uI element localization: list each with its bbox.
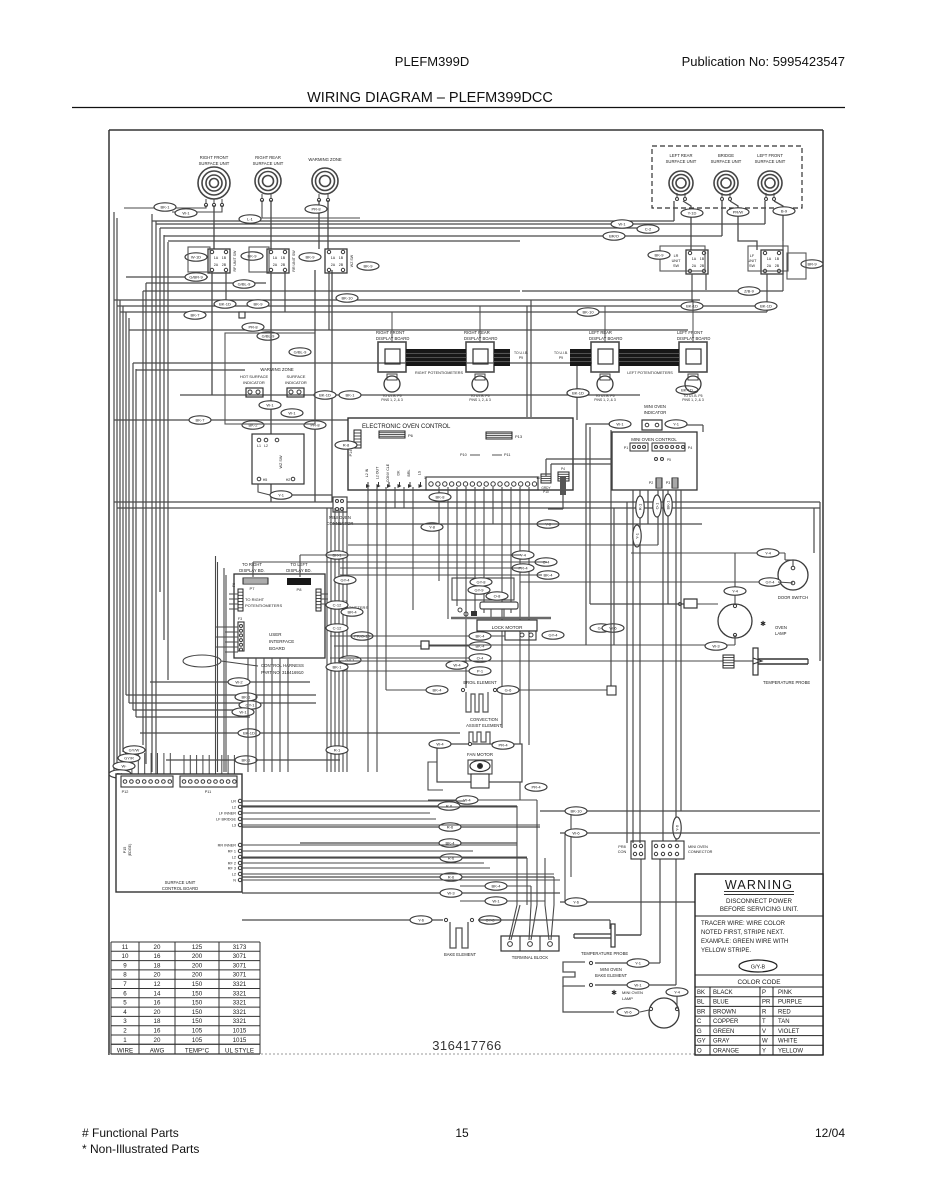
svg-text:2A: 2A	[331, 263, 336, 267]
svg-text:RIGHT FRONT: RIGHT FRONT	[200, 155, 229, 160]
svg-text:LEFT REAR: LEFT REAR	[670, 153, 693, 158]
svg-text:R-8: R-8	[343, 443, 350, 448]
svg-text:PURPLE: PURPLE	[778, 1000, 802, 1006]
svg-text:MINI OVEN CONTROL: MINI OVEN CONTROL	[631, 437, 677, 442]
svg-text:RIGHT POTENTIOMETERS: RIGHT POTENTIOMETERS	[415, 371, 463, 375]
svg-text:L3: L3	[232, 824, 236, 828]
svg-text:Y-4: Y-4	[520, 553, 527, 558]
svg-text:Y: Y	[762, 1048, 766, 1054]
svg-text:CONTROL HARNESS: CONTROL HARNESS	[261, 663, 304, 668]
svg-text:15: 15	[455, 1126, 469, 1140]
svg-text:1B: 1B	[222, 256, 227, 260]
svg-text:EXAMPLE: GREEN WIRE WITH: EXAMPLE: GREEN WIRE WITH	[701, 939, 788, 945]
svg-text:P: P	[762, 990, 766, 996]
svg-text:SW: SW	[749, 264, 756, 268]
svg-text:200: 200	[192, 972, 203, 979]
svg-text:BK-1D: BK-1D	[219, 302, 231, 307]
svg-text:RIGHT REAR: RIGHT REAR	[464, 330, 490, 335]
svg-text:PLEFM399D: PLEFM399D	[395, 54, 469, 69]
svg-text:150: 150	[192, 981, 203, 988]
svg-text:BK-7: BK-7	[196, 418, 206, 423]
svg-text:TO RIGHT: TO RIGHT	[242, 562, 262, 567]
svg-text:CONV CLE: CONV CLE	[386, 463, 390, 482]
svg-text:Y-8: Y-8	[429, 525, 436, 530]
svg-text:2B: 2B	[281, 263, 286, 267]
svg-text:✱: ✱	[611, 989, 617, 997]
svg-text:CONVECTION: CONVECTION	[470, 717, 498, 722]
svg-text:OVEN: OVEN	[775, 625, 787, 630]
svg-text:P8: P8	[297, 587, 303, 592]
svg-text:LF INNER: LF INNER	[219, 812, 237, 816]
svg-text:1A: 1A	[692, 257, 697, 261]
svg-text:O: O	[697, 1048, 702, 1054]
svg-text:1A: 1A	[214, 256, 219, 260]
svg-text:1015: 1015	[233, 1037, 247, 1044]
svg-text:COPPER: COPPER	[713, 1019, 739, 1025]
svg-text:COLOR CODE: COLOR CODE	[738, 979, 781, 986]
svg-text:W-1: W-1	[288, 411, 296, 416]
svg-text:C-2: C-2	[645, 227, 652, 232]
svg-text:P6: P6	[408, 433, 414, 438]
svg-text:150: 150	[192, 1009, 203, 1016]
svg-text:BK-7: BK-7	[191, 313, 201, 318]
svg-text:DISPLAY BD.: DISPLAY BD.	[239, 568, 264, 573]
svg-text:Y-6: Y-6	[418, 918, 425, 923]
svg-text:P-1: P-1	[477, 669, 484, 674]
svg-text:* Non-Illustrated Parts: * Non-Illustrated Parts	[82, 1142, 199, 1156]
svg-text:Y-1: Y-1	[635, 961, 642, 966]
svg-text:Y-4: Y-4	[674, 990, 681, 995]
svg-text:G/BL-9: G/BL-9	[294, 350, 307, 355]
svg-text:DISCONNECT POWER: DISCONNECT POWER	[726, 898, 792, 905]
svg-text:MINI OVEN: MINI OVEN	[329, 515, 351, 520]
svg-text:DISPLAY BOARD: DISPLAY BOARD	[376, 336, 409, 341]
svg-text:200: 200	[192, 953, 203, 960]
svg-text:3173: 3173	[233, 944, 247, 951]
svg-text:8: 8	[123, 972, 127, 979]
svg-text:P12: P12	[122, 790, 129, 794]
svg-text:14: 14	[154, 990, 161, 997]
svg-text:3321: 3321	[233, 1000, 247, 1007]
svg-text:LF: LF	[750, 254, 755, 258]
svg-text:PINS 1, 2, & 3: PINS 1, 2, & 3	[594, 398, 616, 402]
svg-text:W: W	[762, 1039, 768, 1045]
svg-text:USER: USER	[269, 632, 282, 637]
svg-text:R-1: R-1	[638, 503, 643, 510]
svg-text:BK-4: BK-4	[476, 634, 486, 639]
svg-text:GY/W: GY/W	[129, 748, 140, 753]
svg-text:125: 125	[192, 944, 203, 951]
svg-text:4: 4	[123, 1009, 127, 1016]
svg-text:TO U.I.B.: TO U.I.B.	[514, 351, 528, 355]
svg-text:RR INNER: RR INNER	[218, 844, 237, 848]
svg-text:TO LEFT: TO LEFT	[290, 562, 308, 567]
svg-text:18: 18	[154, 1018, 161, 1025]
svg-text:W-1: W-1	[634, 983, 642, 988]
svg-text:C: C	[697, 1019, 702, 1025]
svg-text:WARMING ZONE: WARMING ZONE	[308, 157, 342, 162]
svg-text:PR-8: PR-8	[248, 325, 258, 330]
svg-text:PINK: PINK	[778, 990, 792, 996]
svg-text:2A: 2A	[214, 263, 219, 267]
svg-text:P11: P11	[504, 453, 510, 457]
svg-text:LAMP: LAMP	[622, 996, 633, 1001]
svg-text:3321: 3321	[233, 990, 247, 997]
svg-text:BK-1D: BK-1D	[243, 731, 255, 736]
svg-text:2A: 2A	[692, 264, 697, 268]
svg-text:BK-4: BK-4	[492, 884, 502, 889]
svg-text:LEFT FRONT: LEFT FRONT	[677, 330, 703, 335]
svg-text:ORANGE: ORANGE	[713, 1048, 739, 1054]
svg-text:INDICATOR: INDICATOR	[285, 380, 307, 385]
svg-text:INDICATOR: INDICATOR	[644, 410, 667, 415]
svg-text:5: 5	[123, 1000, 127, 1007]
svg-text:BK-8: BK-8	[436, 495, 446, 500]
svg-text:POTENTIOMETERS: POTENTIOMETERS	[245, 603, 282, 608]
svg-text:SURFACE UNIT: SURFACE UNIT	[755, 159, 786, 164]
svg-text:GY-4: GY-4	[549, 633, 559, 638]
svg-text:RR UNIT SW: RR UNIT SW	[292, 250, 296, 272]
svg-text:L1: L1	[257, 444, 261, 448]
svg-text:16: 16	[154, 1028, 161, 1035]
svg-text:BLUE: BLUE	[713, 1000, 729, 1006]
svg-text:TERMINAL BLOCK: TERMINAL BLOCK	[512, 955, 549, 960]
svg-text:1B: 1B	[339, 256, 344, 260]
svg-text:Publication No: 5995423547: Publication No: 5995423547	[682, 54, 845, 69]
svg-text:1A: 1A	[767, 257, 772, 261]
svg-text:BK-1: BK-1	[666, 500, 671, 510]
svg-text:WHITE: WHITE	[778, 1039, 797, 1045]
svg-text:BK: BK	[697, 990, 705, 996]
svg-text:2B: 2B	[222, 263, 227, 267]
svg-text:BK-2: BK-2	[249, 423, 259, 428]
svg-text:150: 150	[192, 1018, 203, 1025]
svg-text:GY/R: GY/R	[124, 756, 134, 761]
svg-text:G-6: G-6	[505, 688, 512, 693]
svg-text:LAMP: LAMP	[775, 631, 787, 636]
svg-text:BRIDGE: BRIDGE	[718, 153, 734, 158]
svg-text:O-8: O-8	[494, 594, 501, 599]
svg-text:GY-1: GY-1	[246, 703, 256, 708]
svg-text:B-9: B-9	[781, 209, 788, 214]
svg-text:BROWN: BROWN	[713, 1009, 736, 1015]
svg-text:FAN MOTOR: FAN MOTOR	[467, 752, 493, 757]
svg-text:GY-4: GY-4	[766, 580, 776, 585]
svg-text:P5: P5	[667, 458, 671, 462]
svg-text:BK-9: BK-9	[364, 264, 374, 269]
svg-text:G/BR-9: G/BR-9	[189, 275, 203, 280]
svg-text:MINI OVEN: MINI OVEN	[688, 845, 708, 849]
svg-text:BK-4: BK-4	[544, 573, 554, 578]
svg-text:GY-8: GY-8	[477, 580, 487, 585]
svg-text:PR: PR	[762, 1000, 771, 1006]
svg-text:LEFT FRONT: LEFT FRONT	[757, 153, 783, 158]
svg-text:12: 12	[154, 981, 161, 988]
svg-text:BOARD: BOARD	[269, 646, 286, 651]
svg-text:P13: P13	[515, 434, 523, 439]
svg-text:1015: 1015	[233, 1028, 247, 1035]
svg-text:YELLOW: YELLOW	[778, 1048, 803, 1054]
svg-text:P15: P15	[123, 847, 127, 853]
svg-text:Y-6: Y-6	[675, 824, 680, 831]
svg-text:UNIT: UNIT	[748, 259, 758, 263]
svg-text:V: V	[762, 1029, 766, 1035]
svg-text:105: 105	[192, 1028, 203, 1035]
svg-text:W-6: W-6	[572, 831, 580, 836]
svg-text:20: 20	[154, 972, 161, 979]
svg-text:20: 20	[154, 944, 161, 951]
svg-text:LEFT POTENTIOMETERS: LEFT POTENTIOMETERS	[627, 371, 673, 375]
svg-text:# Functional Parts: # Functional Parts	[82, 1126, 179, 1140]
svg-text:UL STYLE: UL STYLE	[225, 1047, 254, 1054]
svg-text:BAKE ELEMENT: BAKE ELEMENT	[444, 952, 477, 957]
svg-text:Y-4: Y-4	[732, 589, 739, 594]
svg-text:BR/O: BR/O	[609, 234, 619, 239]
svg-text:TO RIGHT: TO RIGHT	[245, 597, 265, 602]
svg-text:200: 200	[192, 962, 203, 969]
svg-text:MINI OVEN: MINI OVEN	[600, 967, 622, 972]
svg-text:TEMP°C: TEMP°C	[185, 1047, 210, 1054]
svg-text:DISPLAY BOARD: DISPLAY BOARD	[589, 336, 622, 341]
svg-text:SURFACE UNIT: SURFACE UNIT	[666, 159, 697, 164]
svg-text:GY-4: GY-4	[341, 578, 351, 583]
svg-text:PR8: PR8	[618, 845, 625, 849]
svg-text:LOCK MOTOR: LOCK MOTOR	[492, 625, 523, 630]
svg-text:SW: SW	[673, 264, 680, 268]
svg-text:11: 11	[122, 944, 129, 951]
svg-text:P10: P10	[460, 453, 467, 457]
svg-text:PR-8: PR-8	[311, 207, 321, 212]
svg-text:Y-1: Y-1	[278, 493, 285, 498]
svg-text:DISPLAY BOARD: DISPLAY BOARD	[464, 336, 497, 341]
svg-text:C-12: C-12	[333, 626, 342, 631]
svg-text:BR-9: BR-9	[807, 262, 817, 267]
svg-text:ELECTRONIC OVEN CONTROL: ELECTRONIC OVEN CONTROL	[362, 424, 451, 430]
svg-text:RED: RED	[778, 1009, 791, 1015]
svg-text:7: 7	[123, 981, 127, 988]
svg-text:PR/W: PR/W	[733, 210, 744, 215]
svg-text:WZ SW: WZ SW	[279, 455, 283, 468]
svg-text:W-1: W-1	[266, 403, 274, 408]
svg-text:PART NO. 318416910: PART NO. 318416910	[261, 670, 304, 675]
svg-text:BK-4: BK-4	[476, 644, 486, 649]
svg-text:P4: P4	[561, 467, 565, 471]
svg-text:3071: 3071	[233, 972, 247, 979]
svg-text:BK-4: BK-4	[433, 688, 443, 693]
svg-text:LR: LR	[674, 254, 679, 258]
svg-text:AWG: AWG	[150, 1047, 165, 1054]
svg-text:R-6: R-6	[448, 856, 455, 861]
svg-text:316417766: 316417766	[432, 1038, 502, 1053]
svg-text:Z/B-9: Z/B-9	[744, 289, 755, 294]
svg-text:H2: H2	[286, 478, 291, 482]
svg-text:WIRE: WIRE	[117, 1047, 133, 1054]
svg-text:BK-1: BK-1	[161, 205, 171, 210]
svg-text:P10: P10	[543, 490, 549, 494]
svg-text:BK-1D: BK-1D	[319, 393, 331, 398]
svg-text:PINS 1, 2, & 3: PINS 1, 2, & 3	[469, 398, 491, 402]
svg-text:R-6: R-6	[446, 804, 453, 809]
svg-text:9: 9	[123, 962, 127, 969]
svg-text:1B: 1B	[281, 256, 286, 260]
svg-text:3071: 3071	[233, 962, 247, 969]
svg-text:105: 105	[192, 1037, 203, 1044]
svg-text:RF 2: RF 2	[228, 862, 236, 866]
svg-text:WIRING DIAGRAM – PLEFM399DCC: WIRING DIAGRAM – PLEFM399DCC	[307, 90, 553, 106]
svg-text:P11: P11	[205, 790, 211, 794]
svg-text:DISPLAY BOARD: DISPLAY BOARD	[677, 336, 710, 341]
svg-text:UNIT: UNIT	[672, 259, 682, 263]
svg-text:G/Y-B: G/Y-B	[751, 965, 766, 971]
svg-text:L2: L2	[264, 444, 268, 448]
svg-text:BK-1D: BK-1D	[760, 304, 772, 309]
svg-text:N: N	[233, 879, 236, 883]
svg-text:BK-10: BK-10	[570, 809, 582, 814]
svg-text:O-1: O-1	[655, 502, 660, 509]
svg-text:3321: 3321	[233, 981, 247, 988]
svg-text:3: 3	[123, 1018, 127, 1025]
svg-text:CON: CON	[618, 850, 627, 854]
svg-text:16: 16	[154, 1000, 161, 1007]
svg-text:BK-1: BK-1	[242, 695, 252, 700]
svg-text:O-4: O-4	[477, 656, 484, 661]
svg-text:RF 1: RF 1	[228, 850, 236, 854]
svg-text:RF UNIT SW: RF UNIT SW	[233, 250, 237, 272]
svg-text:SURFACE UNIT: SURFACE UNIT	[711, 159, 742, 164]
svg-text:BEFORE SERVICING UNIT.: BEFORE SERVICING UNIT.	[720, 906, 799, 913]
svg-text:BK-9: BK-9	[655, 253, 665, 258]
svg-text:Y-1: Y-1	[635, 532, 640, 539]
svg-text:BK-10: BK-10	[582, 310, 594, 315]
svg-text:LEFT REAR: LEFT REAR	[589, 330, 612, 335]
svg-text:BK-9: BK-9	[306, 255, 316, 260]
svg-text:F3: F3	[238, 617, 242, 621]
svg-text:P9: P9	[559, 356, 563, 360]
svg-text:BLACK: BLACK	[713, 990, 733, 996]
svg-text:W-3: W-3	[447, 891, 455, 896]
svg-text:18: 18	[154, 962, 161, 969]
svg-text:BROIL ELEMENT: BROIL ELEMENT	[463, 680, 497, 685]
svg-text:MINI OVEN: MINI OVEN	[622, 990, 643, 995]
svg-text:✱: ✱	[760, 620, 766, 628]
svg-text:W-1: W-1	[492, 899, 500, 904]
svg-text:W-1: W-1	[182, 211, 190, 216]
svg-text:BR-4: BR-4	[347, 610, 357, 615]
svg-text:150: 150	[192, 990, 203, 997]
svg-text:YELLOW STRIPE.: YELLOW STRIPE.	[701, 948, 751, 954]
svg-text:L2: L2	[232, 806, 236, 810]
svg-text:1A: 1A	[331, 256, 336, 260]
svg-text:BK-1: BK-1	[333, 665, 343, 670]
svg-text:NOTED FIRST, STRIPE NEXT.: NOTED FIRST, STRIPE NEXT.	[701, 930, 784, 936]
svg-text:SURFACE: SURFACE	[287, 374, 306, 379]
svg-text:L2 OUT: L2 OUT	[376, 466, 380, 479]
svg-text:150: 150	[192, 1000, 203, 1007]
svg-text:W-4: W-4	[436, 742, 444, 747]
svg-text:R-6: R-6	[448, 875, 455, 880]
svg-text:LR: LR	[231, 800, 236, 804]
svg-text:BAKE ELEMENT: BAKE ELEMENT	[595, 973, 628, 978]
svg-text:16: 16	[154, 953, 161, 960]
svg-text:W-6: W-6	[624, 1010, 632, 1015]
svg-text:WARMING ZONE: WARMING ZONE	[260, 367, 294, 372]
svg-text:SURFACE UNIT: SURFACE UNIT	[199, 161, 230, 166]
svg-text:BK-1D: BK-1D	[572, 391, 584, 396]
svg-text:(EDGE): (EDGE)	[128, 844, 132, 857]
svg-text:Y-4: Y-4	[765, 551, 772, 556]
svg-text:P2: P2	[649, 481, 653, 485]
svg-text:INDICATOR: INDICATOR	[243, 380, 265, 385]
svg-text:PINS 1, 2, & 3: PINS 1, 2, & 3	[381, 398, 403, 402]
svg-text:MINI OVEN: MINI OVEN	[644, 404, 666, 409]
svg-text:P7: P7	[250, 586, 256, 591]
svg-text:1: 1	[424, 476, 426, 480]
svg-text:3071: 3071	[233, 953, 247, 960]
svg-text:LF BRIDGE: LF BRIDGE	[216, 818, 237, 822]
svg-text:CONTROL BOARD: CONTROL BOARD	[162, 886, 198, 891]
svg-text:20: 20	[154, 1009, 161, 1016]
svg-text:DISPLAY BD.: DISPLAY BD.	[286, 568, 311, 573]
svg-text:Y-1: Y-1	[673, 422, 680, 427]
svg-text:L2 IN: L2 IN	[365, 468, 369, 477]
svg-text:2A: 2A	[767, 264, 772, 268]
svg-text:W-1D: W-1D	[191, 255, 201, 260]
svg-text:R-1: R-1	[334, 748, 341, 753]
svg-text:20: 20	[154, 1037, 161, 1044]
svg-text:TEMPERATURE PROBE: TEMPERATURE PROBE	[763, 680, 810, 685]
svg-text:T: T	[762, 1019, 766, 1025]
svg-text:TEMPERATURE PROBE: TEMPERATURE PROBE	[581, 951, 628, 956]
svg-text:W-1: W-1	[616, 422, 624, 427]
svg-text:3321: 3321	[233, 1018, 247, 1025]
svg-text:G/BL-9: G/BL-9	[262, 334, 275, 339]
svg-text:L2: L2	[232, 856, 236, 860]
svg-text:3321: 3321	[233, 1009, 247, 1016]
svg-text:2B: 2B	[775, 264, 780, 268]
svg-text:W-: W-	[121, 764, 127, 769]
svg-text:P4: P4	[688, 446, 692, 450]
svg-text:SURFACE UNIT: SURFACE UNIT	[165, 880, 196, 885]
svg-text:WZ SW: WZ SW	[350, 254, 354, 267]
svg-text:WARNING: WARNING	[725, 878, 793, 892]
svg-text:BK-1: BK-1	[242, 758, 252, 763]
svg-text:16: 16	[536, 476, 540, 480]
svg-text:W-3: W-3	[712, 644, 720, 649]
svg-text:CONNECTOR: CONNECTOR	[688, 850, 713, 854]
svg-text:HOT SURFACE: HOT SURFACE	[240, 374, 269, 379]
svg-text:GRAY: GRAY	[713, 1039, 730, 1045]
svg-text:W-4: W-4	[453, 663, 461, 668]
svg-text:PR-4: PR-4	[498, 743, 508, 748]
svg-text:VIOLET: VIOLET	[778, 1029, 800, 1035]
svg-text:W-1: W-1	[618, 222, 626, 227]
svg-text:P14: P14	[349, 450, 353, 457]
svg-text:P3: P3	[666, 481, 670, 485]
svg-text:BK-1: BK-1	[346, 393, 356, 398]
svg-text:BRL: BRL	[407, 470, 411, 477]
svg-text:GREEN: GREEN	[713, 1029, 734, 1035]
svg-text:BL: BL	[697, 1000, 705, 1006]
svg-text:2A: 2A	[273, 263, 278, 267]
svg-text:ASSIST ELEMENT: ASSIST ELEMENT	[466, 723, 502, 728]
svg-text:G/BL-9: G/BL-9	[238, 282, 251, 287]
svg-text:12/04: 12/04	[815, 1126, 845, 1140]
svg-text:W-1: W-1	[239, 710, 247, 715]
svg-text:RIGHT REAR: RIGHT REAR	[255, 155, 281, 160]
svg-text:GY: GY	[697, 1039, 706, 1045]
svg-text:DK: DK	[397, 470, 401, 476]
svg-text:10: 10	[122, 953, 129, 960]
